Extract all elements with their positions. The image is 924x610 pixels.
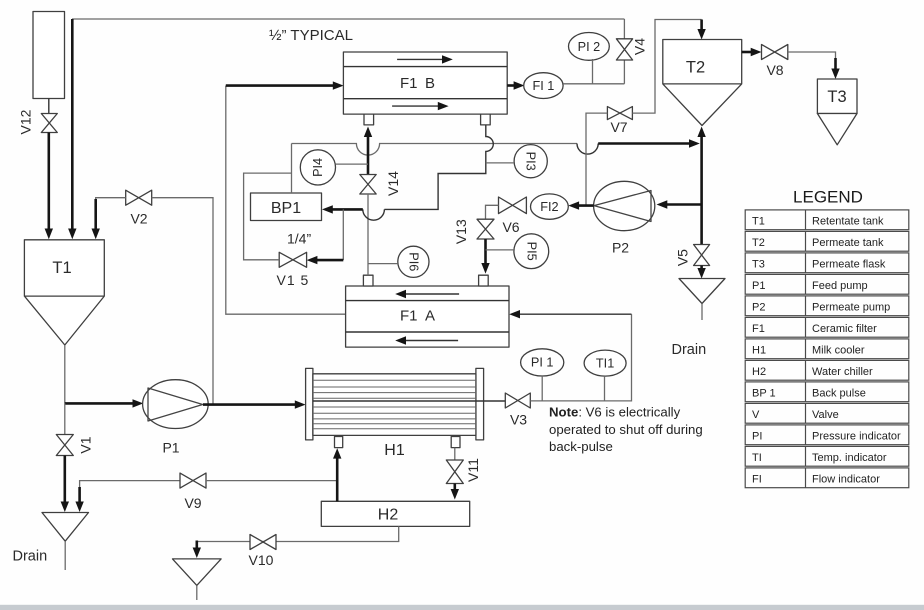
pressure indicator PI5 xyxy=(486,234,549,269)
wire V5 to drain xyxy=(700,266,703,274)
svg-text:Permeate tank: Permeate tank xyxy=(812,237,884,249)
svg-text:FI 1: FI 1 xyxy=(532,79,554,93)
svg-text:P2: P2 xyxy=(752,302,765,314)
svg-text:Permeate flask: Permeate flask xyxy=(812,259,886,271)
valve V15 xyxy=(279,252,306,267)
svg-text:FI: FI xyxy=(752,474,762,486)
svg-text:PI: PI xyxy=(752,431,762,443)
wire P1 discharge to H1 xyxy=(203,403,300,406)
svg-text:PI 2: PI 2 xyxy=(578,40,601,54)
wire V7 right up over to T2 top xyxy=(632,20,701,114)
wire V12 to T1 xyxy=(47,133,50,234)
F1A top nozzle right xyxy=(479,275,489,286)
legend xyxy=(745,188,909,488)
wire V1 to drain xyxy=(64,456,67,507)
wire T2 outlet to V8 xyxy=(742,51,756,54)
svg-text:P2: P2 xyxy=(612,240,629,256)
wire H1 outlet to V3 xyxy=(484,400,506,402)
wire BP1 riser to header xyxy=(291,144,293,194)
svg-text:V3: V3 xyxy=(510,412,527,428)
valve V5 xyxy=(694,245,710,266)
wire T1 junction down to V1 xyxy=(64,403,66,434)
F1A top nozzle left xyxy=(363,275,373,286)
svg-text:H1: H1 xyxy=(752,345,766,357)
wire V4 vertical xyxy=(623,19,625,84)
valve V12 xyxy=(41,114,57,133)
svg-text:H2: H2 xyxy=(752,366,766,378)
svg-text:Drain: Drain xyxy=(13,549,48,565)
svg-text:Drain: Drain xyxy=(672,342,707,358)
svg-text:H2: H2 xyxy=(378,506,399,523)
wire V13 down into F1A right nozzle xyxy=(484,239,487,268)
bottom page rule xyxy=(0,605,924,610)
wire FI1 to V4 xyxy=(563,83,624,85)
svg-text:V10: V10 xyxy=(249,552,274,568)
back pulse unit BP1 xyxy=(251,193,322,221)
wire V10 line to small drain xyxy=(196,541,199,553)
svg-text:V14: V14 xyxy=(385,171,401,196)
wire F1B right outlet to FI1 xyxy=(507,84,519,87)
svg-text:Ceramic filter: Ceramic filter xyxy=(812,323,877,335)
svg-text:back-pulse: back-pulse xyxy=(549,439,613,454)
wire H1 bottom right nozzle to V11 xyxy=(454,448,456,460)
svg-text:½” TYPICAL: ½” TYPICAL xyxy=(269,27,353,44)
wire BP1 feed hop and arrow xyxy=(363,209,385,220)
svg-text:Water chiller: Water chiller xyxy=(812,366,873,378)
svg-text:PI5: PI5 xyxy=(524,242,538,261)
wire riser into F1A right xyxy=(513,313,632,315)
valve V9 xyxy=(180,473,206,488)
drain funnel right xyxy=(679,279,725,304)
valve V4 xyxy=(616,39,632,60)
pressure indicator PI1 xyxy=(521,349,564,401)
svg-text:PI 1: PI 1 xyxy=(531,356,554,370)
svg-text:Feed pump: Feed pump xyxy=(812,280,868,292)
svg-text:V2: V2 xyxy=(130,211,147,227)
svg-text:P1: P1 xyxy=(162,440,179,456)
temperature indicator TI1 xyxy=(584,350,626,401)
wire V15 to BP1 loop frame xyxy=(244,173,292,260)
svg-text:V6: V6 xyxy=(502,219,519,235)
svg-text:Pressure indicator: Pressure indicator xyxy=(812,431,901,443)
svg-text:TI1: TI1 xyxy=(596,356,614,370)
svg-text:F1: F1 xyxy=(752,323,765,335)
pressure indicator PI3 xyxy=(486,145,548,178)
svg-text:T3: T3 xyxy=(752,259,765,271)
svg-text:Note: V6 is electrically: Note: V6 is electrically xyxy=(549,405,681,420)
svg-text:V1 5: V1 5 xyxy=(277,272,310,288)
pressure indicator PI4 xyxy=(300,150,368,185)
wire V3 to F1A riser xyxy=(530,314,631,401)
wire V15 branch down xyxy=(342,209,344,260)
svg-text:PI4: PI4 xyxy=(311,158,325,177)
drain funnel bottom xyxy=(173,559,222,586)
wire H2 up to H1 left nozzle xyxy=(336,452,339,501)
wire V2 to T1 xyxy=(96,198,126,228)
valve V8 xyxy=(762,45,788,60)
svg-text:T2: T2 xyxy=(752,237,765,249)
flow indicator FI2 xyxy=(531,194,569,219)
svg-text:FI2: FI2 xyxy=(540,200,558,214)
pressure indicator PI6 xyxy=(368,246,429,277)
svg-text:1/4”: 1/4” xyxy=(287,231,311,247)
svg-text:V5: V5 xyxy=(675,249,691,266)
svg-text:operated to shut off during: operated to shut off during xyxy=(549,422,703,437)
F1B bottom nozzle left xyxy=(364,114,374,125)
wire long permeate header with hops xyxy=(292,144,578,156)
svg-text:P1: P1 xyxy=(752,280,765,292)
svg-text:V13: V13 xyxy=(453,219,469,244)
wire branch to P2 suction xyxy=(661,203,702,206)
wire P2 discharge to FI2 xyxy=(573,204,594,207)
valve V6 xyxy=(499,197,527,214)
ceramic filter F1 A xyxy=(346,286,509,347)
permeate tank T2 xyxy=(663,40,742,126)
valve V7 xyxy=(607,107,632,120)
milk cooler H1 xyxy=(306,368,484,459)
svg-text:Retentate tank: Retentate tank xyxy=(812,216,884,228)
valve V10 xyxy=(250,535,276,550)
svg-text:BP 1: BP 1 xyxy=(752,388,776,400)
pump P2 xyxy=(594,181,655,255)
water chiller H2 xyxy=(321,501,469,526)
valve V13 xyxy=(477,219,494,239)
H1 bottom nozzle left xyxy=(335,437,343,448)
valve V11 xyxy=(446,460,463,484)
svg-text:LEGEND: LEGEND xyxy=(793,188,863,207)
pressure indicator PI2 xyxy=(569,33,610,84)
wire V7 left down to P2 discharge xyxy=(586,113,607,206)
feed column (vertical tube) xyxy=(33,12,65,99)
svg-text:H1: H1 xyxy=(384,442,405,459)
svg-text:TI: TI xyxy=(752,452,762,464)
permeate flask T3 xyxy=(817,79,857,145)
svg-text:V7: V7 xyxy=(610,119,627,135)
svg-text:V: V xyxy=(752,409,760,421)
svg-text:Milk cooler: Milk cooler xyxy=(812,345,865,357)
wire F1B right nozzle S-hop down to BP1 feed xyxy=(384,125,493,209)
wire V14 down to F1A left nozzle xyxy=(367,194,369,275)
svg-text:Back pulse: Back pulse xyxy=(812,388,866,400)
svg-text:PI3: PI3 xyxy=(524,152,538,171)
wire V11 to H2 xyxy=(453,484,456,495)
svg-text:V11: V11 xyxy=(465,458,481,482)
svg-text:BP1: BP1 xyxy=(271,200,301,217)
wire top line down to T1 xyxy=(71,19,74,234)
wire V9 branch to drain xyxy=(80,481,180,496)
svg-text:V1: V1 xyxy=(78,436,94,453)
wire tube to V12 xyxy=(48,99,50,114)
valve V14 xyxy=(360,175,376,195)
svg-text:V8: V8 xyxy=(766,62,783,78)
svg-text:T3: T3 xyxy=(827,88,846,106)
flow indicator FI1 xyxy=(524,73,563,99)
svg-text:PI6: PI6 xyxy=(406,252,420,271)
pump P1 xyxy=(143,380,209,456)
wire F1A left to F1B feed loop xyxy=(226,86,346,315)
wire V8 to T3 xyxy=(788,52,836,62)
svg-text:Temp. indicator: Temp. indicator xyxy=(812,452,887,464)
drain funnel left xyxy=(42,513,89,542)
valve V3 xyxy=(505,393,530,408)
tank T1 xyxy=(24,240,104,345)
wire T1 outlet xyxy=(64,345,66,403)
svg-text:V4: V4 xyxy=(631,38,647,55)
F1B bottom nozzle right xyxy=(481,114,491,125)
wire V6 corner to V13 xyxy=(486,205,499,219)
wire V14 line: F1B left nozzle down to V14 xyxy=(367,131,370,175)
valve V2 xyxy=(126,190,152,205)
svg-text:T1: T1 xyxy=(752,216,765,228)
wire T2 bottom main: up arrow into cone, down to V5 xyxy=(700,131,703,245)
svg-text:T1: T1 xyxy=(52,259,71,277)
svg-text:T2: T2 xyxy=(686,59,705,77)
wire T1 to P1 suction xyxy=(65,402,138,405)
svg-text:Valve: Valve xyxy=(812,409,839,421)
wire H2 bottom to V10 line xyxy=(197,526,399,541)
svg-text:Flow indicator: Flow indicator xyxy=(812,474,880,486)
svg-text:V9: V9 xyxy=(184,495,201,511)
note text xyxy=(549,405,703,455)
svg-text:Permeate pump: Permeate pump xyxy=(812,302,890,314)
svg-text:F1 B: F1 B xyxy=(400,75,435,92)
svg-text:F1 A: F1 A xyxy=(400,308,435,325)
ceramic filter F1 B xyxy=(343,52,507,114)
wire V2 to pump discharge riser xyxy=(152,198,213,405)
svg-text:V12: V12 xyxy=(18,109,34,134)
valve V1 xyxy=(56,435,73,456)
H1 bottom nozzle right xyxy=(451,437,460,448)
wire top return line xyxy=(72,18,624,20)
wire V9 to chiller riser xyxy=(206,480,337,482)
